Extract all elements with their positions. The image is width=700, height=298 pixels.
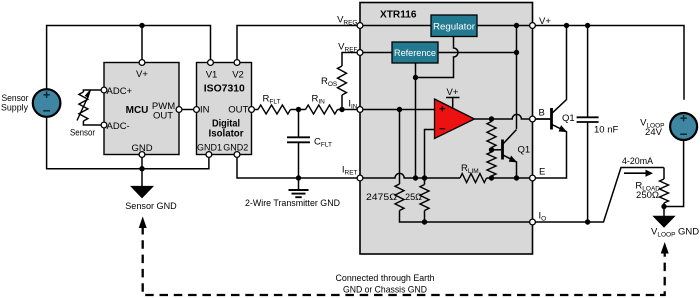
svg-text:Isolator: Isolator [209,128,244,139]
junction: sensor gnd rail [139,166,144,171]
ground: V_LOOP GND arrow [654,216,675,227]
junction: reference vertical on IRET line [413,175,418,180]
svg-text:ISO7310: ISO7310 [204,84,245,95]
pin: ISO IN [194,107,200,113]
pin: ISO OUT [249,107,255,113]
capacitor 10nF [577,26,599,223]
junction: fb bottom on E line [489,175,494,180]
pin: XTR V_REF [357,50,363,56]
dashed earth connection path [143,226,665,295]
svg-text:10 nF: 10 nF [594,125,618,136]
wire: fb stubs [491,119,493,178]
wire: 2475 bottom to IO rail [400,211,533,223]
svg-text:Reference: Reference [394,48,436,59]
pin: XTR I_IN [357,107,363,113]
svg-text:ADC-: ADC- [107,121,130,132]
wire: IIN line to op-amp + input [360,109,435,111]
pin: ISO V2 [234,60,240,66]
wire: GND2 to transmitter gnd rail / IRET [237,158,360,178]
svg-text:4-20mA: 4-20mA [622,156,654,167]
junction: V+ internal rail top [514,23,519,28]
wire: 25 stubs [424,178,426,222]
pin: MCU ADC- [101,122,107,128]
sensor supply source [33,89,61,117]
arrow: loop current direction [624,170,653,177]
svg-text:OUT: OUT [153,110,173,121]
wire: sensor supply bottom to sensor ground rail [47,117,209,169]
wire: OUT to IIN line [254,109,360,111]
resistor 2475ohm [395,184,404,211]
junction: RIN/ROS node [339,107,344,112]
wire: VREF/reference line inside XTR116 [360,52,517,54]
svg-text:2475Ω: 2475Ω [366,192,397,203]
pin: ISO V1 [208,60,214,66]
wire: reference bottom vertical [415,63,417,178]
junction: CFLT bottom node [296,175,301,180]
svg-text:E: E [539,167,545,178]
wire: VREF to ROS [342,53,360,67]
pin: XTR E [530,175,536,181]
transistor Q1 (external) [533,26,567,179]
resistor R_LOAD 250 [660,179,669,203]
svg-text:Supply: Supply [1,103,28,114]
pin: ISO GND2 [234,152,240,158]
reference block U-REF [392,42,438,63]
junction: Q1 emitter on E line [514,175,519,180]
wire: RLIM to E pin [487,177,533,179]
wire: loop supply minus to RLOAD bottom [664,140,684,207]
pin: XTR V+ [530,23,536,29]
op-amp U1 [435,98,475,139]
svg-text:V2: V2 [232,70,244,81]
wire: IO line to 4-20mA diagonal [533,168,664,223]
svg-text:2-Wire Transmitter GND: 2-Wire Transmitter GND [245,198,340,209]
junction: V+ rail over MCU [139,23,144,28]
junction: op-amp output node [489,116,494,121]
ISO7310 block body [197,63,252,155]
svg-text:GND or Chassis GND: GND or Chassis GND [343,284,427,295]
svg-text:V1: V1 [206,70,218,81]
svg-text:25Ω: 25Ω [405,192,422,203]
svg-text:250Ω: 250Ω [636,190,659,201]
XTR116 block body [360,3,533,255]
resistor R_IN [306,105,338,114]
pin: MCU GND [139,152,145,158]
svg-text:MCU: MCU [126,105,149,116]
junction: RLOAD bottom node [661,204,666,209]
resistor: feedback upper [487,122,496,148]
wire: top-left V+ rail from sensor supply to V1 [47,26,211,90]
wire: 2475 top vertical [399,110,401,185]
wire: V+ vertical to Q1 collector [516,26,518,130]
svg-text:V+: V+ [136,69,148,80]
junction: RFLT/CFLT node [296,107,301,112]
svg-text:Sensor: Sensor [70,128,95,139]
wire: MCU GND stub [141,158,143,187]
svg-text:XTR116: XTR116 [380,10,417,21]
MCU block body [104,63,179,155]
ground: Sensor GND arrow [131,186,153,197]
junction: 25ohm / opamp minus node [422,175,427,180]
svg-text:OUT: OUT [228,105,248,116]
svg-text:IN: IN [200,105,210,116]
junction: IIN / 2475 node [397,107,402,112]
wire: regulator bottom, hop over reference line [416,37,459,78]
svg-text:Sensor GND: Sensor GND [125,201,177,212]
junction: ext Q1 collector on rail [564,23,569,28]
svg-text:B: B [539,107,545,118]
svg-text:Q1: Q1 [518,145,531,156]
transistor Q1 (internal) [492,130,517,179]
resistor R_FLT [258,105,291,114]
pin: XTR I_O [530,219,536,225]
junction: reference line to V+ vertical [514,50,519,55]
resistor 25ohm [420,185,429,211]
svg-text:Q1: Q1 [562,113,575,124]
junction: 25ohm bottom on IO rail [422,219,427,224]
svg-text:ADC+: ADC+ [107,86,133,97]
wire: op-amp minus input to IRET node [425,130,435,179]
pin: MCU V+ [101,23,535,225]
junction: Q1 base node [489,147,494,152]
pin: ISO GND1 [206,152,212,158]
wire: PWM OUT to IN [182,109,194,111]
pin: MCU PWM OUT [176,107,182,113]
wire: V+ top rail to loop supply [533,26,685,100]
wire: VREG line inside XTR116 [360,25,530,27]
pin: MCU ADC+ [101,87,107,93]
svg-text:Regulator: Regulator [433,21,475,32]
dashed earth connection: left arrow [139,217,147,229]
dashed earth connection: right arrow [661,242,669,254]
wire: ROS bottom to IIN node [341,95,343,110]
pin: XTR B [530,116,536,122]
sensor (variable resistor) [77,90,101,125]
junction: regulator/reference gnd node [413,75,418,80]
loop supply V_LOOP 24V [670,113,697,140]
junction: 10nF bottom on IO line [585,219,590,224]
ground: 2-wire transmitter GND symbol [289,178,309,197]
pin: XTR I_RET [357,175,363,181]
svg-text:24V: 24V [645,127,663,138]
svg-text:Connected through Earth: Connected through Earth [336,273,435,284]
svg-text:V+: V+ [447,87,459,98]
resistor: feedback lower [487,152,496,176]
pin: XTR V_REG [357,23,363,29]
resistor R_LIM [460,174,487,183]
regulator block U-REG [431,15,477,37]
capacitor C_FLT [287,110,310,179]
wire: V2 to VREG rail [237,26,360,60]
junction: 10nF top on rail [585,23,590,28]
wire: IRET line with hop, to RLIM [360,173,460,178]
resistor R_OS [338,66,347,95]
wire: RLOAD stubs [663,168,665,217]
wire: op-amp output to B line with hop [475,114,552,119]
